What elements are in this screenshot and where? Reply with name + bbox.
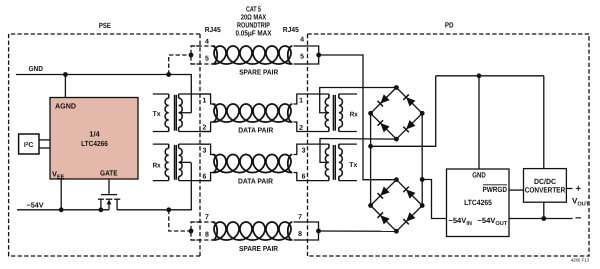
wire -54V bus to U2 -54Vin pin [422,180,446,219]
wire pin1 jog right [294,94,329,104]
bracket RJ45 pins 4/5 right [308,46,319,64]
svg-text:I2C: I2C [24,141,34,149]
svg-text:2: 2 [203,125,207,132]
svg-text:7: 7 [205,214,209,221]
label DATA PAIR top [238,126,274,135]
RJ45 connector left (dashed line) [199,34,201,256]
twisted pair data 1/2 [213,104,293,122]
svg-text:1/4: 1/4 [89,129,100,138]
T4 label Tx [349,162,357,169]
T1 label Tx [153,111,161,118]
label Vout minus [575,212,581,224]
transistor Q1 (external power MOSFET) [98,179,120,210]
svg-text:LTC4266: LTC4266 [81,139,108,148]
svg-text:3: 3 [203,147,207,154]
svg-text:RJ45: RJ45 [205,25,221,34]
wire T1 center tap stub [179,112,192,114]
node GND/spare-feed junction [166,72,171,77]
wire pin8 left stub (dashed) [191,239,216,241]
-54V net label [27,200,44,209]
transformer T2 (PSE Rx magnetics) [153,144,211,181]
T2 label Rx [153,162,161,169]
wire T2 center tap stub [179,161,192,163]
T3 label Rx [350,111,358,118]
CAT 5 cable note [236,5,272,38]
wire GND rail to U2 GND pin [478,76,480,169]
svg-text:Rx: Rx [153,162,161,169]
wire VEE riser [60,179,62,210]
svg-text:4266 F13: 4266 F13 [571,258,590,263]
bracket RJ45 pins 7/8 left (dashed) [191,222,201,240]
pin number 1 right [299,97,303,104]
PD enclosure (dashed box) [308,34,590,256]
RJ45 label left [205,25,221,34]
svg-text:4: 4 [300,36,304,43]
transformer T4 (PD Tx magnetics) [325,144,357,181]
bracket RJ45 pins 4/5 left (dashed) [191,46,201,64]
svg-text:−54V: −54V [27,200,44,209]
node -54V/spare-feed junction [166,207,171,212]
wire pin6 jog left [200,173,216,181]
node spare 7/8 bracket junction [189,229,194,234]
svg-text:SPARE PAIR: SPARE PAIR [239,244,279,253]
transformer T1 (PSE Tx magnetics) [153,94,211,132]
wire spare 7/8 feed (dashed) [169,210,191,231]
GND net label [28,64,43,73]
wire DC/DC bottom stub [543,202,545,218]
svg-text:Rx: Rx [350,111,358,118]
node GND bus junction [368,144,373,149]
wire GND rail [16,75,191,113]
wire bridge right vertices bus (-54V) [421,113,423,205]
pin number 5 right [300,54,304,61]
pin number 3 right [302,147,306,154]
pin number 3 left [203,147,207,154]
wire AGND riser [64,75,66,98]
figure number 4266 F13 [571,258,590,263]
DC/DC converter module [524,169,567,203]
pin number 6 left [203,174,207,181]
wire pin3 jog left [200,144,216,154]
wire pin2 jog left [200,122,216,132]
svg-text:−: − [575,212,581,224]
pin number 4 right [300,36,304,43]
pin number 2 left [203,125,207,132]
wire spare 4/5 feed (dashed) [169,55,191,75]
wire pin5 left stub (dashed) [191,63,216,65]
label DATA PAIR bottom [238,176,274,185]
wire GND bus to top rail [371,76,436,147]
label SPARE PAIR bottom [239,244,279,253]
wire GND rail to DC/DC [543,76,545,169]
wire spare 7/8 to bridge2 [319,230,397,232]
svg-text:7: 7 [298,214,302,221]
wire T3 center tap to bridge1 top [320,88,397,113]
svg-text:RJ45: RJ45 [283,25,299,34]
pin number 5 left [205,55,209,62]
svg-text:+: + [576,183,582,194]
svg-text:1: 1 [203,97,207,104]
bracket RJ45 pins 7/8 right [308,222,319,240]
svg-text:4: 4 [205,38,209,45]
svg-text:Tx: Tx [349,162,357,169]
svg-text:SPARE PAIR: SPARE PAIR [239,67,279,76]
svg-text:CONVERTER: CONVERTER [525,186,566,195]
wire pin7 left stub (dashed) [191,221,216,223]
pin number 7 left [205,214,209,221]
svg-text:3: 3 [302,147,306,154]
svg-text:GND: GND [28,64,43,73]
diode bridge BR1 (data pair rectifier) [368,85,424,141]
twisted pair data 3/6 [213,155,293,173]
pin number 1 left [203,97,207,104]
wire I2C to U1 (lower) [39,147,50,149]
svg-text:6: 6 [302,174,306,181]
svg-text:PWRGD: PWRGD [483,185,508,194]
svg-text:2: 2 [299,125,303,132]
wire -54V rail left [17,209,109,211]
wire PD top GND rail [436,75,544,77]
svg-text:8: 8 [298,231,302,238]
pin number 6 right [302,174,306,181]
PSE label [99,21,111,30]
pin number 8 left [205,232,209,239]
wire T4 center tap to bridge1 bottom [320,139,396,163]
pin number 7 right [298,214,302,221]
wire pin4 left stub (dashed) [191,45,216,47]
svg-text:DATA PAIR: DATA PAIR [238,176,274,185]
diode bridge BR2 (spare pair rectifier) [368,177,424,233]
svg-text:PSE: PSE [99,21,111,30]
label Vout plus [576,183,582,194]
svg-text:Tx: Tx [153,111,161,118]
node VEE junction [59,207,64,212]
svg-text:5: 5 [300,54,304,61]
wire -54Vout rail [509,218,573,220]
wire Vout+ stub [566,188,572,190]
twisted pair spare 7/8 [213,222,308,240]
node Q1 source junction [99,207,104,212]
RJ45 connector right (dashed line) [307,34,309,256]
pin number 2 right [299,125,303,132]
node -54Vout/DCDC junction [541,216,546,221]
wire pin3 jog right [294,144,329,154]
pin number 4 left [205,38,209,45]
svg-text:0.05μF MAX: 0.05μF MAX [236,28,272,37]
svg-text:PD: PD [445,21,454,30]
node spare 7/8 right junction [316,229,321,234]
node GND/AGND junction [63,72,68,77]
RJ45 label right [283,25,299,34]
wire pin1 jog left [200,94,216,104]
I2C interface box [19,134,39,154]
node spare 4/5 bracket junction [189,53,194,58]
PD label [445,21,454,30]
pin number 8 right [298,231,302,238]
label VOUT [572,196,590,207]
svg-text:5: 5 [205,55,209,62]
wire bridge left vertices bus (GND+) [370,113,372,205]
svg-text:GATE: GATE [100,168,118,177]
node spare 4/5 right junction [316,53,321,58]
wire pin6 jog right [294,173,329,181]
svg-text:8: 8 [205,232,209,239]
node top rail junction [477,73,482,78]
svg-text:GND: GND [472,171,486,180]
svg-text:DATA PAIR: DATA PAIR [238,126,274,135]
op-amp U2: LTC4265 PD controller [447,169,510,237]
svg-text:LTC4265: LTC4265 [464,198,492,207]
op-amp U1: 1/4 LTC4266 PSE controller [50,98,138,181]
wire spare 4/5 to bridge2 [319,55,397,180]
transformer T3 (PD Rx magnetics) [325,94,357,132]
node -54V bus junction [420,177,425,182]
wire I2C to U1 (upper) [39,139,50,141]
label SPARE PAIR top [239,67,279,76]
wire pin2 jog right [294,122,329,132]
wire -54V rail right [117,163,191,210]
PSE enclosure (dashed box) [9,34,200,256]
svg-text:6: 6 [203,174,207,181]
twisted pair spare 4/5 [213,46,308,64]
svg-text:1: 1 [299,97,303,104]
svg-text:AGND: AGND [55,101,77,110]
wire PWRGD to DC/DC [509,189,524,191]
